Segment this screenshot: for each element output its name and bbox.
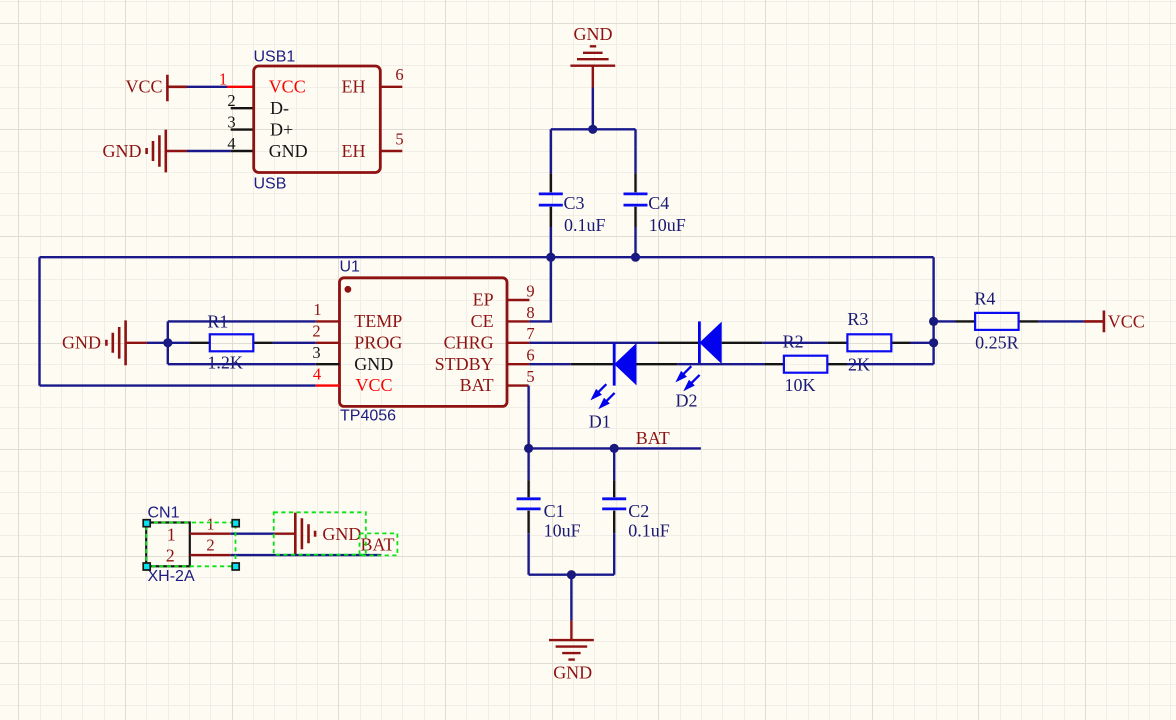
junction bottom GND node [567,570,576,579]
wire VCC left loop vertical [38,257,40,385]
connector USB1 body [254,66,381,173]
wire D1 to R2 [678,363,765,365]
svg-text:D1: D1 [589,411,611,431]
svg-text:1: 1 [206,514,214,533]
wire bottom GND stem [570,575,572,621]
ground GND (USB input) [103,130,188,173]
svg-text:C4: C4 [648,193,669,213]
connector USB1 pin 5 [380,150,402,152]
resistor R4 [956,313,1039,330]
wire CN1 pin1 to GND [231,533,275,535]
svg-text:GND: GND [103,141,142,161]
svg-text:CHRG: CHRG [444,332,494,352]
U1 pin 9 stub [507,299,529,301]
wire R1 right to pin 2 [273,342,316,344]
selection handle bottom-left [143,563,150,570]
connector CN1 body [146,523,190,567]
svg-text:2: 2 [166,546,175,566]
connector USB1 pin 4 [231,150,254,152]
CN1 pin 2 stub [190,554,231,556]
connector USB1 pin 2 [231,107,254,109]
U1 pin 8 stub [507,320,529,322]
svg-text:10uF: 10uF [649,215,686,235]
svg-text:U1: U1 [340,259,361,276]
wire D2 cathode lead [658,342,700,344]
svg-text:10uF: 10uF [544,520,581,540]
power flag VCC (right) [1084,311,1145,333]
wire CN1 pin2 BAT net [231,554,382,556]
op-amp U1 body (TP4056) [340,278,508,407]
wire STDBY row pin6 to D1 [529,363,570,365]
wire R2 to rail [847,363,934,365]
svg-text:1: 1 [219,70,227,89]
wire C3 lower lead [550,227,552,257]
wire CE pin drop from rail [529,257,550,321]
ground GND (bottom) [549,621,594,683]
svg-text:EH: EH [342,77,366,97]
ground GND (left, rotated) [62,320,147,365]
U1 pin 4 stub [316,384,340,386]
svg-text:4: 4 [313,364,321,383]
svg-text:5: 5 [526,367,534,386]
resistor R3 [827,334,910,351]
wire TEMP branch [168,320,316,322]
U1 pin 5 stub [507,384,529,386]
svg-text:2: 2 [206,535,214,554]
svg-text:EH: EH [342,141,366,161]
svg-text:GND: GND [322,524,361,544]
svg-text:2: 2 [227,91,235,110]
wire C1 lower lead [527,533,529,574]
svg-text:7: 7 [526,324,534,343]
svg-text:3: 3 [227,112,235,131]
svg-text:9: 9 [526,281,534,300]
svg-text:1: 1 [313,300,321,319]
svg-text:GND: GND [553,662,592,682]
wire VCC right rail vertical [932,257,934,364]
wire GND flag to USB pin 4 [187,150,231,152]
svg-text:VCC: VCC [1108,312,1145,332]
svg-text:1.2K: 1.2K [207,352,243,372]
svg-text:3: 3 [312,343,320,362]
svg-text:0.1uF: 0.1uF [628,520,670,540]
U1 pin 6 stub [507,363,529,365]
wire D2 anode lead [722,342,762,344]
svg-text:PROG: PROG [354,332,402,352]
ground GND (top, inverted) [570,24,615,88]
svg-text:USB: USB [254,175,287,192]
capacitor C3 [539,173,563,227]
junction BAT rail C2 [610,444,619,453]
wire R4 to VCC flag [1039,320,1084,322]
wire GND branch [168,363,316,365]
wire VCC flag to USB pin 1 [187,86,227,88]
svg-text:BAT: BAT [636,428,670,448]
wire C2 upper lead [613,448,615,480]
diode D2 (LED) [675,321,721,391]
wire R1 branch vertical [167,321,169,364]
wire C4 lower lead [634,227,636,257]
svg-text:D+: D+ [270,119,293,139]
U1 pin 1 stub [316,320,340,322]
connector USB1 pin 3 [231,128,254,130]
wire R1 left [168,342,190,344]
U1 pin 3 stub [316,363,340,365]
svg-text:R3: R3 [847,309,868,329]
junction C3 at VCC rail [546,253,555,262]
svg-text:EP: EP [473,290,494,310]
selection box BAT label [360,533,398,555]
wire rail to R4 [934,320,956,322]
svg-text:C1: C1 [544,501,565,521]
svg-text:CN1: CN1 [148,504,180,521]
wire C2 lower lead [613,533,615,574]
wire VCC left loop bottom [40,384,316,386]
selection box GND group [274,512,366,554]
svg-text:1: 1 [167,525,176,545]
svg-text:GND: GND [574,24,613,44]
U1 pin 2 stub [316,342,340,344]
svg-text:4: 4 [227,134,235,153]
svg-text:USB1: USB1 [254,49,296,66]
selection handle top-left [143,520,150,527]
selection handle top-right [232,520,239,527]
junction R4 tap [929,317,938,326]
wire CHRG row pin7 to D2 [529,342,657,344]
junction C4 at VCC rail [631,253,640,262]
svg-text:R1: R1 [207,311,228,331]
ground GND (CN1, mirrored) [275,513,362,555]
resistor R1 [190,334,273,351]
resistor R2 [764,356,847,373]
svg-text:5: 5 [395,129,403,148]
svg-text:6: 6 [395,65,403,84]
pin-1 mark U1 [345,286,352,293]
svg-text:6: 6 [526,346,534,365]
junction BAT rail left [524,444,533,453]
svg-text:C3: C3 [564,193,585,213]
selection box CN1 [146,523,235,567]
svg-text:GND: GND [269,141,308,161]
svg-text:C2: C2 [628,501,649,521]
svg-text:0.1uF: 0.1uF [564,215,606,235]
wire C4 upper lead [634,129,636,173]
junction R3 tap [929,338,938,347]
wire D1 cathode lead [571,363,614,365]
svg-text:XH-2A: XH-2A [148,568,195,585]
wire D1 anode lead [637,363,678,365]
connector USB1 pin 1 (red) [227,86,254,88]
svg-text:D2: D2 [676,391,698,411]
CN1 pin 1 stub [190,533,231,535]
selection handle bottom-right [232,563,239,570]
power flag VCC (USB input) [125,75,187,101]
svg-text:2: 2 [312,322,320,341]
wire top GND stem [592,88,594,130]
svg-text:R2: R2 [783,332,804,352]
svg-text:BAT: BAT [460,375,494,395]
wire bottom rail [529,574,615,576]
capacitor C4 [624,173,648,227]
wire BAT rail [529,447,701,449]
diode D1 (LED) [590,343,636,409]
svg-text:8: 8 [526,303,534,322]
wire D2 to R3 [762,342,827,344]
svg-text:VCC: VCC [125,77,162,97]
svg-text:R4: R4 [974,288,995,308]
wire C3/C4 top rail [551,128,636,130]
junction R1 node [163,338,172,347]
capacitor C1 [517,480,541,533]
svg-text:10K: 10K [785,375,816,395]
svg-text:TP4056: TP4056 [340,408,396,425]
svg-text:GND: GND [354,354,393,374]
svg-text:TEMP: TEMP [354,311,402,331]
svg-text:0.25R: 0.25R [975,332,1019,352]
svg-text:CE: CE [471,311,494,331]
svg-text:VCC: VCC [356,375,393,395]
wire left GND to R1 node [147,342,168,344]
svg-text:GND: GND [62,333,101,353]
svg-text:STDBY: STDBY [435,354,494,374]
wire R3 to rail [911,342,934,344]
svg-text:VCC: VCC [269,77,306,97]
wire BAT pin5 drop [527,386,529,449]
wire C3 upper lead [550,129,552,173]
svg-text:D-: D- [270,98,289,118]
wire C1 upper lead [527,448,529,480]
connector USB1 pin 6 [380,86,402,88]
capacitor C2 [602,480,626,533]
wire VCC top rail [40,256,934,258]
junction top GND node [588,125,597,134]
U1 pin 7 stub [507,342,529,344]
